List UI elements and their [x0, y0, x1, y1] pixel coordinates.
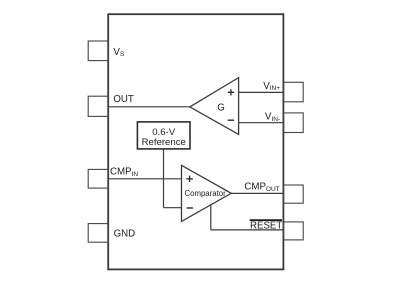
wire op-amp + input to VIN+ pin [239, 91, 284, 93]
op-amp G triangle [190, 78, 239, 135]
pin 1 box VS [88, 41, 108, 61]
wire OUT to op-amp output [108, 106, 190, 108]
op-amp + input sign [228, 89, 234, 95]
comparator triangle [182, 165, 232, 221]
svg-text:Comparator: Comparator [185, 189, 227, 198]
IC package outline [108, 14, 283, 269]
svg-text:Reference: Reference [142, 137, 186, 148]
pin 2 box OUT [88, 96, 108, 116]
wire CMPIN to comparator + input [108, 178, 181, 180]
RESET overline [250, 219, 282, 221]
pin 5 box RESET [284, 222, 304, 240]
wire RESET horizontal to RESET pin [211, 229, 284, 231]
pin 7 box VIN- [284, 113, 304, 133]
0.6-V reference box [137, 122, 190, 149]
pin 8 box VIN+ [284, 82, 304, 102]
comparator + input sign [186, 176, 192, 182]
svg-text:OUT: OUT [113, 94, 134, 105]
svg-text:GND: GND [114, 229, 136, 240]
wire reference to comparator - input [164, 207, 182, 209]
wire comparator output to CMPOUT pin [231, 192, 283, 194]
wire reference output down [163, 149, 165, 208]
pin 6 box CMPOUT [284, 185, 304, 203]
pin 3 box CMPIN [88, 169, 108, 188]
op-amp - input sign [228, 119, 234, 121]
pin 4 box GND [88, 224, 108, 243]
svg-text:G: G [217, 102, 225, 113]
wire op-amp - input to VIN- pin [239, 122, 284, 124]
comparator - input sign [187, 207, 193, 209]
wire RESET vertical from comparator [210, 205, 212, 230]
